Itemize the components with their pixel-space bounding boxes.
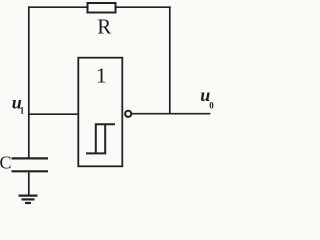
inversion bubble at gate output [125, 111, 131, 117]
wire top feedback [29, 6, 170, 8]
svg-text:C: C [0, 153, 12, 173]
wire right vertical feedback [169, 7, 171, 114]
wire capacitor to ground [28, 172, 30, 194]
capacitor C (top plate) [12, 157, 49, 159]
Schmitt-trigger inverter U1 (box) [78, 58, 122, 167]
wire input node to gate [29, 113, 79, 115]
wire output [131, 113, 209, 115]
svg-text:1: 1 [20, 106, 25, 116]
resistor R [88, 3, 116, 13]
svg-text:R: R [97, 15, 111, 39]
svg-text:0: 0 [209, 100, 214, 110]
wire left vertical [28, 7, 30, 157]
ground [19, 196, 38, 203]
hysteresis symbol inside gate [86, 124, 115, 153]
svg-text:1: 1 [96, 64, 107, 88]
capacitor C (bottom plate) [12, 170, 49, 172]
